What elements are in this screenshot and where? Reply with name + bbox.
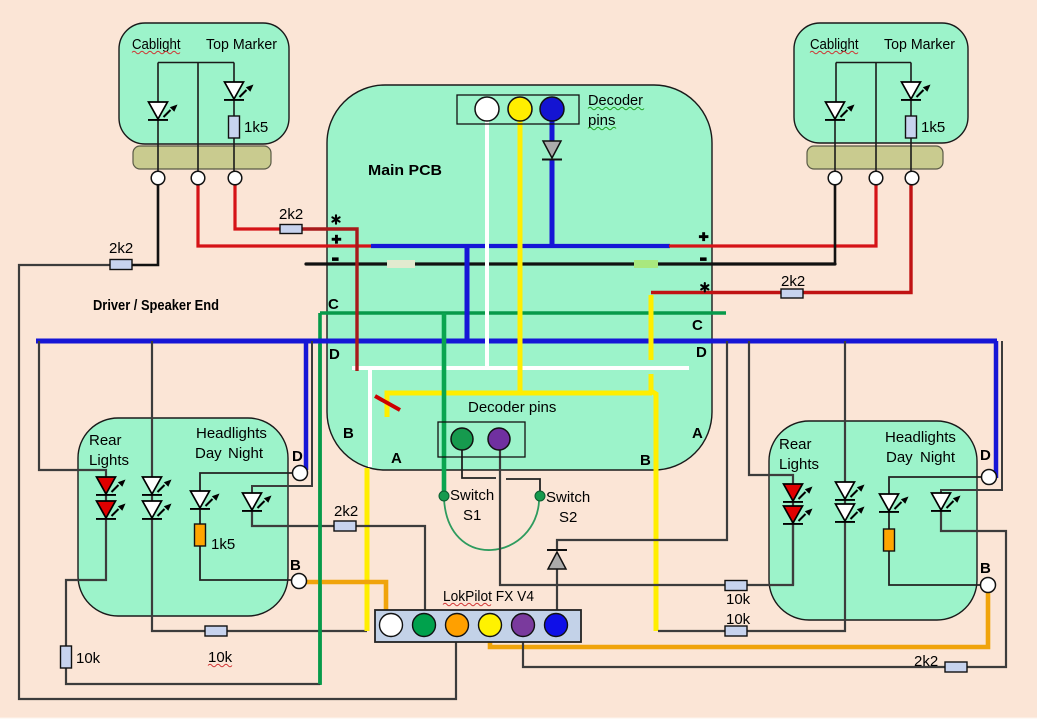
svg-text:S1: S1 [463,507,481,524]
left box D terminal [293,466,308,481]
wire: top-left inner lamp bus [158,63,234,179]
switch S2 dot [535,491,545,501]
label * right [701,283,708,291]
strip pin orange [446,614,469,637]
svg-text:D: D [329,346,340,363]
wire: black - bus [306,262,835,265]
resistor 10k vertical left [61,646,72,668]
svg-text:C: C [692,317,703,334]
svg-text:LokPilot FX V4: LokPilot FX V4 [443,588,534,605]
LEDs white left box [142,477,172,495]
svg-text:10k: 10k [726,591,751,608]
wire: right box red LED feed from D bus [749,341,793,512]
wire: strip purple pin to 2k2 and right night LED [523,636,945,667]
wire: green C bus [320,311,726,315]
LED day right box [879,494,909,512]
wire: blue D bus [36,339,997,344]
svg-text:2k2: 2k2 [109,240,133,257]
wire: white decoder pin vertical [485,121,489,368]
LED cablight top-right [825,102,855,120]
decoder pin green [451,428,473,450]
resistor 10k right upper [725,581,747,591]
svg-text:Night: Night [228,445,264,462]
resistor 2k2 top-right [781,289,803,298]
svg-text:Main PCB: Main PCB [368,162,442,179]
svg-text:Lights: Lights [779,456,819,473]
wire: left white LEDs to horizontal 10k to yellow [152,518,205,631]
wire: blue + to D link [465,246,470,341]
svg-text:S2: S2 [559,509,577,526]
svg-text:A: A [391,450,402,467]
decoder pin white [475,97,499,121]
resistor 1k5 top-left [229,116,240,138]
svg-text:Rear: Rear [89,432,122,449]
strip pin green [413,614,436,637]
svg-text:B: B [290,557,301,574]
wire: orange long from strip yellow pin to right B terminal [490,593,988,647]
wire: white bus [352,366,689,370]
svg-text:Driver / Speaker End: Driver / Speaker End [93,297,219,314]
wire: blue drop to right box D terminal [994,341,999,478]
bottom-right lights box [769,421,977,620]
main PCB box [327,85,712,470]
svg-text:Cablight: Cablight [810,36,859,53]
top-right lamp connector bar [807,146,943,169]
wire: left box white LED feed from D bus [151,341,153,505]
svg-text:D: D [292,448,303,465]
wire: red + from top-left middle terminal [198,185,372,246]
wire: orange B-left to strip [306,582,386,616]
resistor 1k5 orange right box [884,529,895,551]
left box B terminal [292,574,307,589]
wire: red * from top-left right terminal through 2k2 [235,185,281,229]
wire: green C left drop to bottom [318,313,322,685]
svg-text:Top Marker: Top Marker [884,36,955,53]
wire: D bus to diode and blue strip pin [557,341,727,551]
LEDs red left box [96,477,126,495]
LED night left box [242,493,272,511]
wire: green C left drop overlay below D bus [318,344,322,684]
decoder pin blue [540,97,564,121]
resistor 10k horizontal left [205,626,227,636]
wire: white vertical to PCB bottom edge [368,368,372,467]
resistor 2k2 top-left inner [280,225,302,234]
svg-text:Day: Day [195,445,222,462]
decoder pin header bottom [438,422,525,457]
resistor 10k right lower [725,626,747,636]
svg-text:A: A [692,425,703,442]
label - right [700,257,707,261]
LEDs white right box [835,482,865,500]
LokPilot connector strip [375,610,581,642]
svg-text:2k2: 2k2 [279,206,303,223]
svg-text:D: D [696,344,707,361]
svg-text:B: B [343,425,354,442]
wire: left red LEDs to vertical 10k to green [66,518,106,646]
wire: blue decoder pin vertical through diode [550,121,555,141]
wire: black from top-left terminal through 2k2 to bottom loop [132,185,158,265]
svg-text:2k2: 2k2 [914,653,938,670]
LED top marker top-right [901,82,931,100]
strip pin white [380,614,403,637]
terminal circles top-left [151,171,242,185]
svg-text:Night: Night [920,449,956,466]
LED top marker top-left [224,82,254,100]
svg-text:Switch: Switch [450,487,494,504]
svg-text:10k: 10k [208,649,233,666]
resistor 1k5 top-right [906,116,917,138]
wire: top-right inner lamp bus [835,63,911,179]
top-left lamp board box [119,23,289,144]
terminal circles top-right [828,171,919,185]
wire: left box D terminal to day and night LEDs [200,473,294,491]
resistor 2k2 left box [334,521,356,531]
svg-text:1k5: 1k5 [244,119,268,136]
wire: left night LED through 2k2 to strip green pin [252,510,334,526]
svg-text:2k2: 2k2 [334,503,358,520]
LED day left box [190,491,220,509]
svg-text:C: C [328,296,339,313]
right box B terminal [981,578,996,593]
wire: black from top-right left terminal [834,185,837,264]
solder gap left on - bus [387,260,415,268]
wire: green S1 vertical [442,313,447,492]
svg-text:1k5: 1k5 [211,536,235,553]
wire: yellow drop outside PCB bottom [365,468,370,631]
svg-text:B: B [980,560,991,577]
LED cablight top-left [148,102,178,120]
svg-text:10k: 10k [76,650,101,667]
wire: red + to top-right box [669,185,876,246]
wire: left day LED through 1k5 to B terminal [199,508,201,524]
strip pin purple [512,614,535,637]
decoder pin yellow [508,97,532,121]
wire: stub to switch S2 [506,479,540,492]
cut mark: red slash over yellow [375,396,400,410]
wire: yellow bus [387,393,652,417]
svg-text:Headlights: Headlights [196,425,267,442]
label + left [332,235,342,244]
wire: left box red LED feed from D bus [39,341,106,505]
wire: yellow decoder pin vertical [518,121,523,395]
svg-text:Headlights: Headlights [885,429,956,446]
bottom-left lights box [78,418,288,616]
svg-text:D: D [980,447,991,464]
decoder pin header top [457,95,579,124]
wire: right white LEDs to 10k to yellow [747,521,845,631]
svg-text:Rear: Rear [779,436,812,453]
diode gray on blue wire [542,141,562,160]
resistor 1k5 orange left box [195,524,206,546]
LEDs red right box [783,484,813,502]
wire: blue + bus inside PCB [371,244,670,248]
wire: green switch arc S1 to S2 [444,499,539,550]
top-right lamp board box [794,23,968,143]
wire: stub from PCB green pin [462,450,496,478]
wire: right day LED through 1k5 to B terminal [888,511,890,529]
svg-text:1k5: 1k5 [921,119,945,136]
decoder pin purple [488,428,510,450]
label * left [332,215,339,223]
svg-text:Lights: Lights [89,452,129,469]
svg-text:Decoder: Decoder [588,92,643,109]
resistor 2k2 top-left outer [110,260,132,270]
strip pin blue [545,614,568,637]
svg-text:Top Marker: Top Marker [206,36,277,53]
LED night right box [931,493,961,511]
label - left [332,257,339,261]
wire: dark red * right through 2k2 to top-right terminal [651,291,781,294]
wire: purple PCB pin to 10k and right red LEDs [500,450,725,585]
diode gray near strip [547,550,567,569]
strip pin yellow [479,614,502,637]
wire: right red LEDs chain bottom [792,522,794,585]
svg-text:10k: 10k [726,611,751,628]
svg-text:Cablight: Cablight [132,36,181,53]
right box D terminal [982,470,997,485]
wire: blue drop to left box D terminal [304,341,309,470]
svg-text:pins: pins [588,112,616,129]
wire: yellow right riser and drop [649,295,654,360]
label + right [699,232,709,241]
bottom edge highlight [0,718,1037,719]
top-left lamp connector bar [133,146,271,169]
resistor 2k2 bottom right [945,662,967,672]
wire: right box D terminal to day and night LEDs [889,477,982,494]
svg-text:Day: Day [886,449,913,466]
switch S1 dot [439,491,449,501]
svg-text:Decoder pins: Decoder pins [468,399,556,416]
svg-text:B: B [640,452,651,469]
solder gap right on - bus [634,260,658,268]
wire: dark red * vertical into PCB down to white bus [302,229,357,371]
svg-text:Switch: Switch [546,489,590,506]
svg-text:2k2: 2k2 [781,273,805,290]
wire: right box white LED feed from D bus [844,341,846,510]
